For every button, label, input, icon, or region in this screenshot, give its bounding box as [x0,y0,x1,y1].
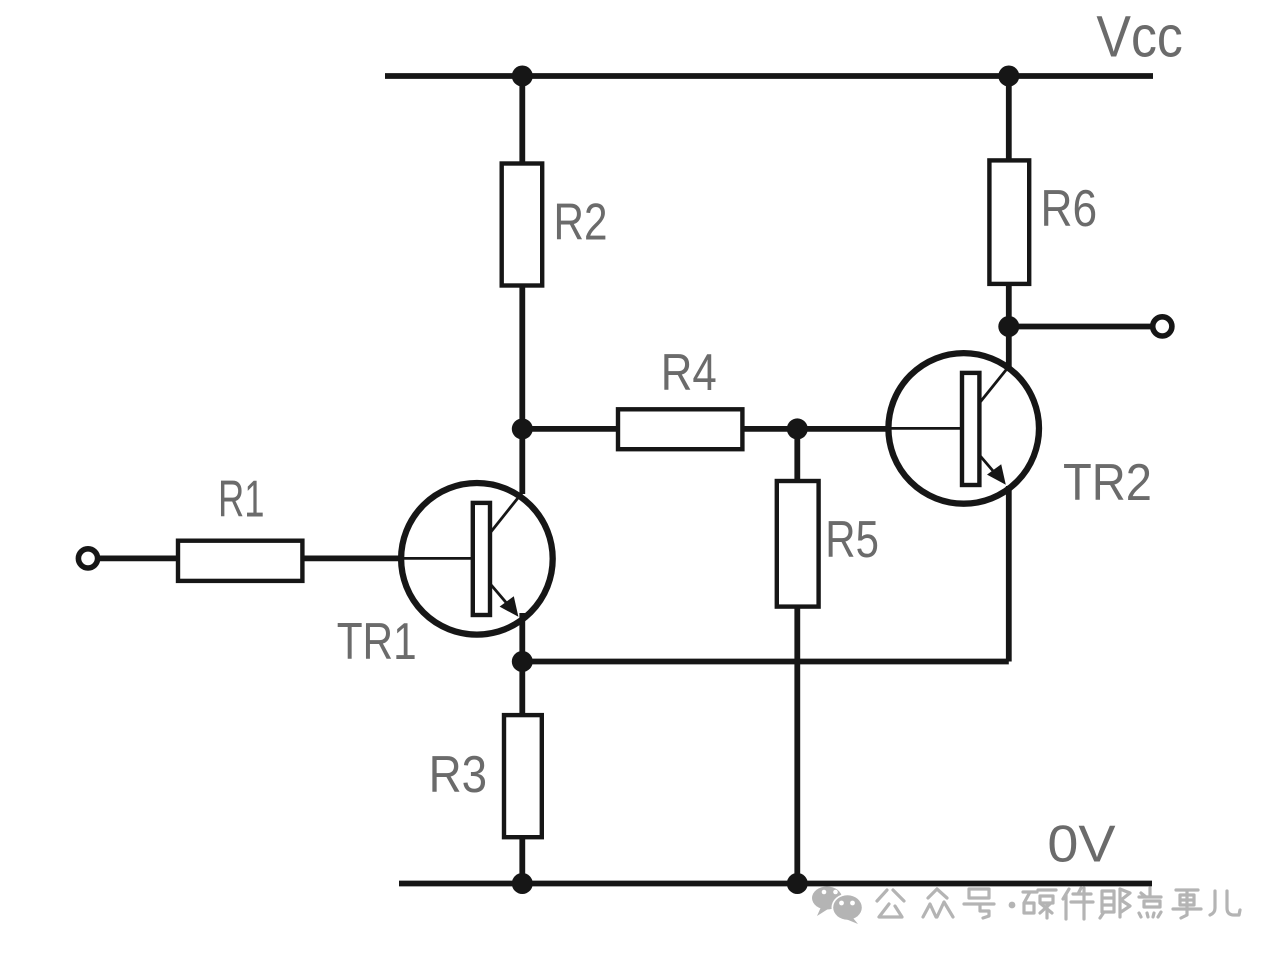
wire R4 to TR2 base node [742,426,798,432]
wire R6 to TR2 collector [1006,284,1012,368]
wire emitter link to TR2 emitter [522,659,1009,665]
svg-text:R2: R2 [554,194,608,252]
node R5/0V junction [787,873,808,894]
svg-text:TR2: TR2 [1063,454,1152,512]
resistor R4 [618,409,742,449]
wire 0V rail [399,881,1152,887]
svg-text:Vcc: Vcc [1096,5,1182,70]
transistor TR2 [885,353,1039,504]
svg-text:R3: R3 [429,746,488,804]
wire Vcc rail [385,73,1153,79]
resistor R1 [178,541,302,581]
node Vcc/R2 junction [512,66,533,87]
node R2/R4 junction [512,418,533,439]
node TR1 emitter junction [512,651,533,672]
node output junction [998,316,1019,337]
wire TR2 emitter down [1006,486,1012,662]
svg-text:R4: R4 [661,344,717,402]
transistor TR1 [398,483,553,635]
watermark text 公众号·硬件那点事儿 [877,888,1240,919]
resistor R6 [989,160,1029,284]
watermark wechat icon [812,887,864,925]
wire Vcc to R6 [1006,76,1012,162]
wire R3 to 0V rail [519,837,525,883]
svg-text:0V: 0V [1047,816,1116,874]
node R3/0V junction [512,873,533,894]
wire R2 to TR1 collector [519,286,525,495]
resistor R2 [502,164,543,286]
svg-text:TR1: TR1 [337,613,417,671]
node R4/R5/TR2-base junction [787,418,808,439]
resistor R3 [504,715,542,837]
wire node to TR2 base [797,426,886,432]
svg-text:R1: R1 [218,471,265,529]
svg-text:R6: R6 [1041,180,1098,238]
wire output [1009,324,1152,330]
node Vcc/R6 junction [998,66,1019,87]
wire Vcc to R2 [519,76,525,166]
svg-text:R5: R5 [825,511,879,569]
wire R5 to 0V rail [794,607,800,884]
resistor R5 [777,481,819,607]
wire node to R4 [522,426,619,432]
input terminal [78,549,97,568]
wire input terminal to R1 [98,556,180,562]
wire R1 to TR1 base [302,556,399,562]
wire node to R5 [794,429,800,482]
wire TR1 emitter down [519,613,525,716]
output terminal [1153,317,1172,336]
